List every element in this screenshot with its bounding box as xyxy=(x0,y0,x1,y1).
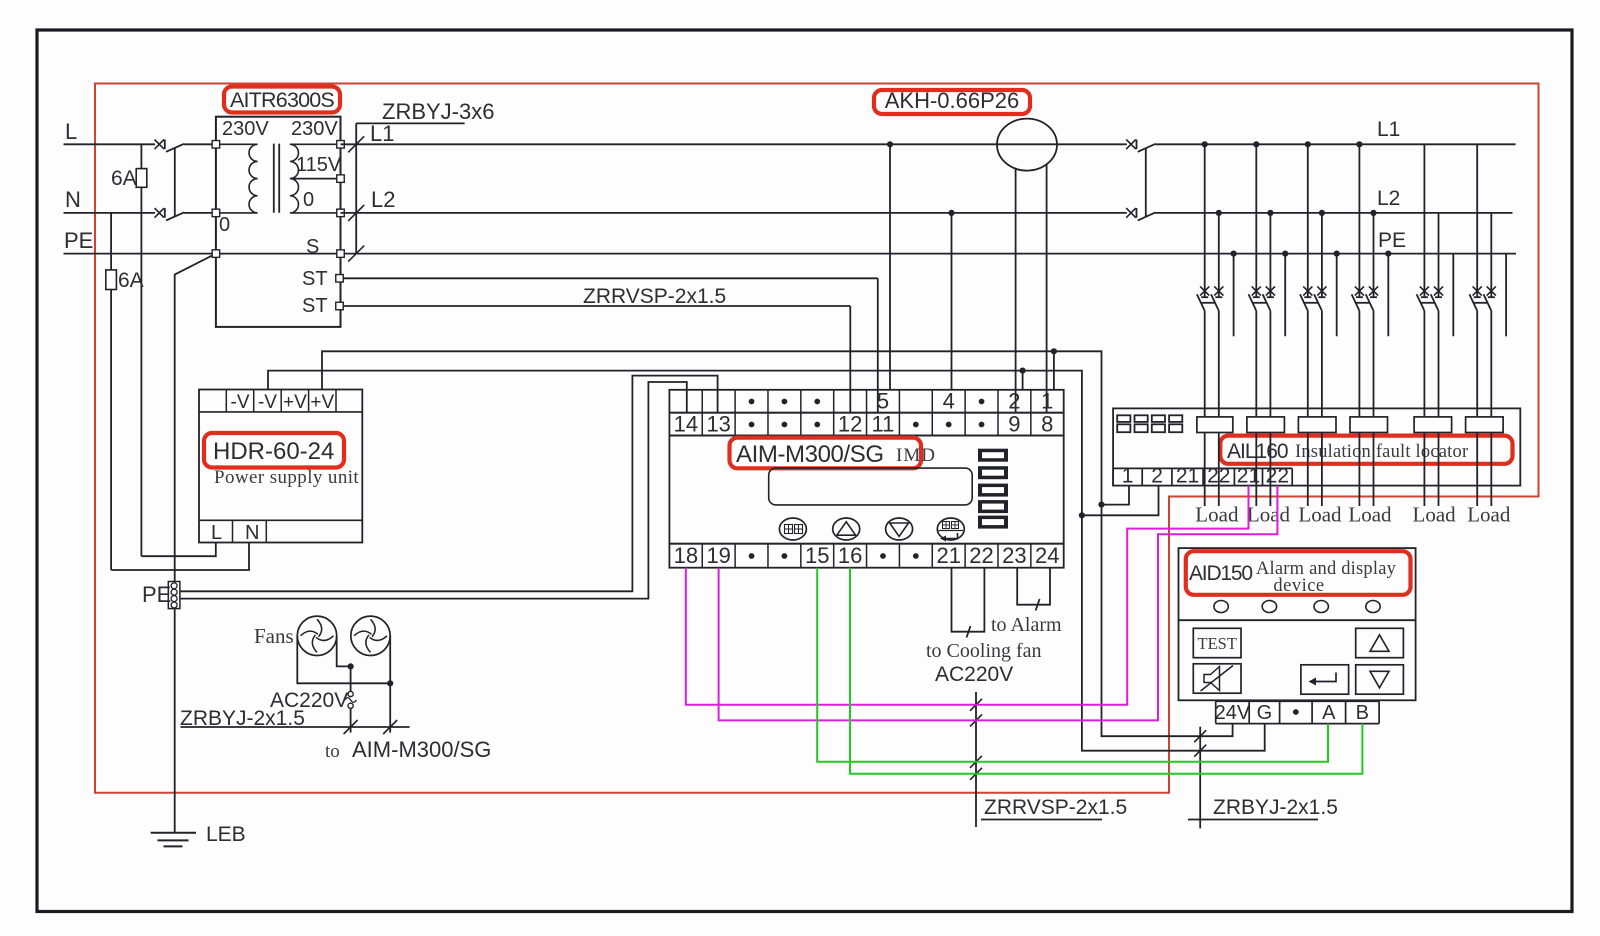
svg-text:0: 0 xyxy=(219,214,230,236)
svg-text:6A: 6A xyxy=(111,167,137,190)
svg-text:6A: 6A xyxy=(118,269,144,292)
svg-text:N: N xyxy=(65,187,81,212)
svg-text:+V: +V xyxy=(283,392,307,413)
svg-text:12: 12 xyxy=(838,412,862,437)
svg-text:1: 1 xyxy=(1122,465,1134,488)
svg-text:AITR6300S: AITR6300S xyxy=(230,88,334,112)
svg-text:Load: Load xyxy=(1348,503,1392,527)
svg-text:ST: ST xyxy=(302,268,328,290)
svg-text:L2: L2 xyxy=(371,187,395,212)
svg-text:23: 23 xyxy=(1002,543,1026,568)
svg-text:ZRBYJ-3x6: ZRBYJ-3x6 xyxy=(382,99,494,124)
svg-text:11: 11 xyxy=(872,412,895,437)
svg-text:PE: PE xyxy=(64,228,93,253)
svg-text:9: 9 xyxy=(1008,412,1020,437)
svg-text:S: S xyxy=(306,236,319,258)
svg-text:L: L xyxy=(211,522,222,544)
svg-text:A: A xyxy=(1322,702,1336,724)
svg-text:ZRRVSP-2x1.5: ZRRVSP-2x1.5 xyxy=(583,285,726,308)
svg-text:ZRBYJ-2x1.5: ZRBYJ-2x1.5 xyxy=(180,707,305,730)
svg-text:L1: L1 xyxy=(370,121,394,146)
svg-text:TEST: TEST xyxy=(1197,634,1236,653)
svg-text:ZRRVSP-2x1.5: ZRRVSP-2x1.5 xyxy=(984,796,1127,819)
svg-text:LEB: LEB xyxy=(206,823,246,846)
svg-text:1: 1 xyxy=(1041,389,1053,414)
svg-text:14: 14 xyxy=(674,412,698,437)
svg-text:115V: 115V xyxy=(296,154,342,176)
svg-text:N: N xyxy=(245,522,259,544)
svg-text:18: 18 xyxy=(674,543,698,568)
svg-text:21: 21 xyxy=(936,543,960,568)
svg-text:to Cooling fan: to Cooling fan xyxy=(926,640,1042,662)
svg-text:B: B xyxy=(1356,702,1369,724)
svg-text:device: device xyxy=(1273,576,1324,596)
svg-text:AKH-0.66P26: AKH-0.66P26 xyxy=(885,88,1020,113)
svg-text:AID150: AID150 xyxy=(1189,562,1252,585)
svg-text:8: 8 xyxy=(1041,412,1053,437)
svg-text:HDR-60-24: HDR-60-24 xyxy=(213,438,334,465)
svg-text:L2: L2 xyxy=(1377,187,1400,210)
svg-text:ST: ST xyxy=(302,295,328,317)
svg-text:ZRBYJ-2x1.5: ZRBYJ-2x1.5 xyxy=(1213,796,1338,819)
svg-text:15: 15 xyxy=(805,543,829,568)
svg-text:22: 22 xyxy=(969,543,993,568)
svg-text:IMD: IMD xyxy=(896,445,936,466)
svg-text:Load: Load xyxy=(1467,503,1511,527)
svg-text:230V: 230V xyxy=(291,118,338,140)
svg-text:to Alarm: to Alarm xyxy=(991,614,1062,636)
svg-text:AC220V: AC220V xyxy=(935,663,1013,686)
svg-text:Load: Load xyxy=(1413,503,1457,527)
svg-text:24V: 24V xyxy=(1215,702,1251,724)
svg-text:5: 5 xyxy=(877,389,889,414)
svg-text:Power supply unit: Power supply unit xyxy=(214,467,359,488)
svg-text:24: 24 xyxy=(1035,543,1059,568)
svg-text:G: G xyxy=(1257,702,1273,724)
svg-text:-V: -V xyxy=(258,392,277,413)
svg-text:Load: Load xyxy=(1298,503,1342,527)
svg-text:to: to xyxy=(325,741,340,762)
svg-text:AIM-M300/SG: AIM-M300/SG xyxy=(736,441,884,468)
svg-text:L1: L1 xyxy=(1377,118,1400,141)
svg-text:4: 4 xyxy=(943,389,955,414)
svg-text:Load: Load xyxy=(1195,503,1239,527)
svg-text:Insulation fault locator: Insulation fault locator xyxy=(1295,442,1468,462)
svg-text:Load: Load xyxy=(1247,503,1291,527)
svg-text:L: L xyxy=(65,119,77,144)
svg-text:PE: PE xyxy=(142,582,171,607)
svg-text:0: 0 xyxy=(303,189,314,211)
svg-text:Fans: Fans xyxy=(254,624,294,648)
svg-text:+V: +V xyxy=(310,392,334,413)
svg-text:PE: PE xyxy=(1378,229,1406,252)
svg-text:AIL160: AIL160 xyxy=(1227,440,1288,463)
svg-text:13: 13 xyxy=(706,412,730,437)
svg-text:230V: 230V xyxy=(222,118,269,140)
svg-text:AIM-M300/SG: AIM-M300/SG xyxy=(352,737,491,762)
svg-text:21: 21 xyxy=(1176,465,1199,488)
svg-text:19: 19 xyxy=(706,543,730,568)
svg-text:2: 2 xyxy=(1151,465,1163,488)
svg-text:2: 2 xyxy=(1008,389,1020,414)
svg-text:16: 16 xyxy=(838,543,862,568)
svg-text:-V: -V xyxy=(231,392,250,413)
svg-text:22: 22 xyxy=(1266,465,1289,488)
